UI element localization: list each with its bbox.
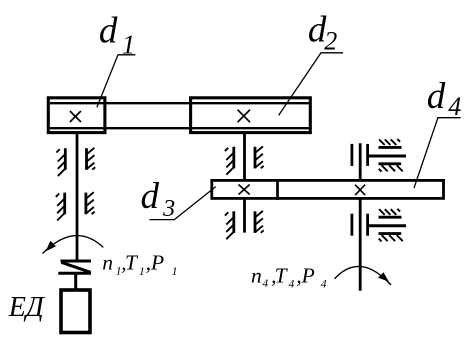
bearing pair shaft1 upper [56,148,95,176]
shaft cross X in pulley D2 [238,110,250,123]
shaft cross X in pulley D4 [355,185,365,195]
svg-text:d: d [141,176,160,217]
svg-text:T: T [125,251,139,275]
label n1,T1,P1 [102,251,177,278]
svg-text:4: 4 [448,92,461,121]
svg-text:4: 4 [289,279,295,291]
svg-text:1: 1 [139,266,145,278]
svg-text:d: d [427,76,446,117]
svg-text:1: 1 [172,266,178,278]
arrowhead shaft1 arc [46,241,56,252]
arrowhead shaft3 arc [378,272,389,282]
svg-text:4: 4 [321,279,327,291]
shaft 1 [76,134,79,261]
shaft 3 [359,143,362,290]
rotation arc shaft3 [335,266,392,285]
pulley band D3-D4 [212,180,444,198]
svg-text:d: d [99,11,118,52]
wall bearing shaft3 bottom [352,209,406,242]
leader line d2 [279,53,344,116]
motor shaft stub [74,273,77,289]
svg-text:3: 3 [162,196,175,222]
divider between D3 and D4 [276,179,279,200]
leader line d4 [414,118,461,188]
pulley D2 [191,98,311,133]
svg-text:4: 4 [262,278,268,290]
svg-text:ЕД: ЕД [8,292,46,323]
bearing pair shaft2 lower [225,211,264,239]
leader line d1 [97,55,135,107]
leader line d3 [149,187,215,220]
coupling top line [61,260,92,263]
svg-text:n: n [102,251,113,275]
wall bearing shaft3 top [352,139,406,172]
belt 1 top edge [50,102,309,104]
bearing pair shaft1 lower [56,192,95,220]
svg-text:1: 1 [122,29,136,59]
svg-text:T: T [275,263,289,287]
svg-text:2: 2 [324,26,337,55]
svg-text:n: n [251,263,262,287]
label n4,T4,P4 [251,263,327,290]
belt 1 bottom edge [50,127,309,129]
shaft cross X in pulley D3 [239,185,250,195]
svg-text:P: P [301,263,315,287]
pulley D1 [48,98,105,133]
coupling bottom line [58,272,91,275]
motor ED box [61,290,90,333]
shaft 2 [243,134,246,233]
bearing pair shaft2 upper [225,146,264,174]
shaft cross X in pulley D1 [70,111,81,122]
rotation arc shaft1 [43,236,104,254]
svg-text:P: P [150,251,164,275]
coupling diagonal [61,262,90,272]
